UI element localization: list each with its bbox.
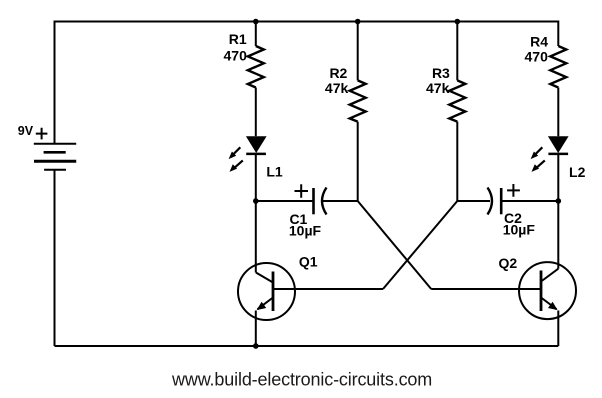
wire L1 cathode to Q1 collector: [255, 154, 257, 272]
LED L1 arrow 1: [229, 147, 241, 159]
wire C2 left lead: [457, 200, 490, 202]
svg-text:R4: R4: [530, 33, 548, 49]
C1 plus sign: [295, 184, 309, 197]
LED L2 arrow 1: [531, 147, 543, 159]
resistor R2: [350, 80, 366, 121]
LED L2 arrow 2: [532, 160, 545, 172]
svg-text:Q2: Q2: [499, 255, 518, 271]
wire left rail lower (battery - to bottom rail): [54, 170, 56, 346]
wire R2 branch top: [357, 22, 359, 81]
capacitor C1: [314, 188, 327, 215]
LED L2: [548, 136, 569, 154]
wire Q1 base horizontal: [273, 288, 383, 290]
resistor R1: [248, 46, 264, 88]
LED L1: [246, 136, 267, 154]
wire top rail: [55, 21, 559, 23]
wire left rail upper (to battery +): [54, 21, 56, 144]
transistor Q1: [238, 263, 295, 320]
wire C1 right lead to R2 node: [323, 200, 358, 202]
svg-text:www.build-electronic-circuits.: www.build-electronic-circuits.com: [171, 370, 432, 390]
wire R3 bottom to C2 node: [456, 122, 458, 201]
capacitor C2: [488, 188, 502, 215]
svg-text:Q1: Q1: [299, 254, 318, 270]
svg-text:L2: L2: [569, 164, 586, 180]
node top rail / R3: [455, 19, 461, 25]
wire R2 bottom to C1 node: [357, 122, 359, 201]
resistor R3: [449, 80, 465, 121]
wire R3 branch top: [456, 22, 458, 81]
node Q1 emitter / bottom rail: [253, 343, 259, 349]
svg-text:R3: R3: [432, 65, 450, 81]
svg-text:47k: 47k: [426, 80, 450, 96]
svg-text:470: 470: [224, 47, 248, 63]
svg-text:L1: L1: [266, 163, 283, 179]
battery plus sign: [36, 128, 48, 140]
node top rail / R1: [253, 19, 259, 25]
svg-text:10µF: 10µF: [289, 223, 322, 239]
wire C2 right lead to L2 junction: [501, 200, 558, 202]
wire R4 to LED L2: [557, 88, 559, 137]
node top rail / R2: [355, 19, 361, 25]
transistor Q2: [519, 262, 576, 319]
LED L1 arrow 2: [230, 160, 243, 172]
svg-text:R1: R1: [229, 31, 247, 47]
wire Q1 emitter to bottom rail: [255, 311, 257, 347]
battery B1 9V: [34, 144, 76, 170]
wire R1 branch top: [255, 22, 257, 47]
node L1 / C1 junction: [253, 198, 259, 204]
svg-text:10µF: 10µF: [503, 222, 536, 238]
svg-text:47k: 47k: [325, 80, 349, 96]
wire bottom rail: [55, 345, 559, 347]
wire R1 to LED L1: [255, 88, 257, 137]
node L2 / C2 junction: [556, 198, 562, 204]
wire L2 cathode to Q2 collector: [557, 154, 559, 269]
wire cross-coupling diagonal C1 node to Q2 base: [358, 201, 432, 289]
svg-text:470: 470: [525, 48, 549, 64]
wire Q2 base horizontal: [431, 288, 541, 290]
wire C1 left lead: [256, 200, 314, 202]
C2 plus sign: [507, 184, 520, 197]
wire cross-coupling diagonal C2 node to Q1 base: [383, 201, 457, 289]
resistor R4: [550, 46, 566, 88]
svg-text:9V: 9V: [18, 124, 34, 138]
wire R4 branch / right rail top: [557, 21, 559, 47]
wire Q2 emitter to bottom rail: [557, 311, 559, 347]
svg-text:R2: R2: [329, 65, 347, 81]
